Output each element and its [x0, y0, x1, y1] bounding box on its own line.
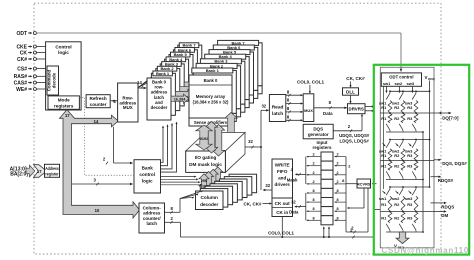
- svg-text:16,384: 16,384: [174, 97, 187, 101]
- wire ODT-RDQS pad node: [380, 211, 434, 213]
- resistor ODT-DQ R3 (upper): [407, 101, 418, 114]
- resistor ODT-DQ R3 (lower): [407, 114, 418, 123]
- switch ODT-DQ sw2 (upper): [392, 90, 404, 105]
- switch ODT-DQ sw1 (upper): [379, 90, 391, 105]
- input pin CS#: [17, 66, 36, 72]
- ODT control block: [381, 73, 421, 86]
- svg-text:Bank: Bank: [142, 166, 154, 171]
- VDDQ rail: [425, 75, 436, 187]
- svg-text:2: 2: [312, 180, 314, 184]
- svg-text:DM mask logic: DM mask logic: [189, 162, 222, 167]
- svg-text:8: 8: [337, 207, 339, 211]
- svg-text:2: 2: [337, 162, 339, 166]
- CK out / CK in block: [272, 198, 293, 217]
- row latch stack (banks 7-1): [151, 43, 201, 116]
- resistor ODT-RDQS R3 (lower): [407, 212, 418, 223]
- svg-text:sw3: sw3: [405, 196, 413, 201]
- svg-text:R2: R2: [394, 153, 400, 158]
- svg-text:Column: Column: [200, 195, 218, 200]
- svg-text:2: 2: [337, 180, 339, 184]
- svg-text:Mode: Mode: [58, 98, 70, 103]
- resistor ODT-RDQS R2 (lower): [394, 212, 405, 223]
- wire 2 strobe to RCVRS: [346, 188, 368, 233]
- pin DM: [434, 210, 449, 218]
- svg-text:MUX: MUX: [304, 108, 313, 113]
- wire ODT-RDQS VSSQ rail: [386, 231, 423, 233]
- wires ODT control to switches: [385, 86, 413, 93]
- svg-text:Bank 0: Bank 0: [204, 78, 218, 83]
- VSSQ arrow: [394, 232, 409, 249]
- switch ODT-DQS sw3 (lower): [412, 171, 416, 179]
- wire RAS# to control logic: [36, 75, 45, 77]
- switch ODT-RDQS sw1 (upper): [379, 186, 391, 201]
- resistor ODT-DQ R2 (upper): [394, 101, 405, 114]
- wire CAS# to control logic: [36, 82, 45, 84]
- svg-text:32: 32: [248, 139, 253, 144]
- svg-text:8: 8: [337, 198, 339, 202]
- wire Data MUX to DRVRS: [314, 100, 348, 116]
- svg-text:R3: R3: [407, 164, 413, 169]
- svg-text:8: 8: [312, 207, 314, 211]
- svg-text:counter/: counter/: [143, 216, 162, 221]
- wire ODT-DQS pad node: [380, 160, 434, 162]
- wires 8 read latch to MUX: [286, 89, 303, 121]
- wire 8 column counter to column decoder: [165, 190, 204, 214]
- svg-text:DQ[7:0]: DQ[7:0]: [442, 116, 459, 121]
- svg-text:COL0, COL1: COL0, COL1: [297, 79, 325, 84]
- svg-text:2: 2: [312, 171, 314, 175]
- resistor ODT-DQ R1 (upper): [381, 101, 392, 114]
- resistor ODT-DQS R2 (upper): [394, 149, 405, 162]
- command decode block: [47, 66, 59, 95]
- svg-text:8192: 8192: [200, 137, 208, 141]
- control logic block: [46, 42, 82, 110]
- sense amplifiers block: [189, 118, 232, 126]
- column decoder block: [196, 191, 224, 210]
- resistor ODT-DQS R3 (upper): [407, 149, 418, 162]
- switch ODT-DQ sw3 (lower): [412, 124, 416, 132]
- wire ODT-DQ VSSQ rail: [386, 131, 423, 133]
- svg-text:CK: CK: [20, 50, 28, 56]
- pin DQ[7:0]: [434, 112, 459, 121]
- column decoder stack (banks 7-1): [200, 174, 256, 207]
- svg-text:logic: logic: [142, 179, 153, 184]
- svg-text:17: 17: [65, 113, 70, 118]
- wire 2 DQS generator to DRVRS: [333, 114, 363, 133]
- wire ODT-RDQS VDDQ rail: [390, 186, 430, 188]
- switch ODT-RDQS sw3 (lower): [412, 224, 416, 232]
- wire ODT-DQ pad node: [380, 112, 434, 114]
- wire ODT-DQS VDDQ rail: [390, 139, 430, 141]
- svg-text:sw2: sw2: [392, 196, 400, 201]
- svg-text:2: 2: [312, 162, 314, 166]
- switch ODT-RDQS sw3 (upper): [405, 186, 417, 201]
- svg-text:R1: R1: [381, 202, 387, 207]
- svg-text:Address: Address: [45, 166, 59, 171]
- resistor ODT-DQS R3 (lower): [407, 161, 418, 170]
- svg-text:sw3: sw3: [407, 81, 415, 86]
- input pin WE#: [16, 87, 36, 93]
- svg-text:CK#: CK#: [17, 57, 27, 63]
- svg-text:Read: Read: [272, 104, 284, 110]
- svg-text:R2: R2: [394, 105, 400, 110]
- svg-text:control: control: [139, 172, 155, 177]
- svg-text:latch: latch: [146, 221, 157, 226]
- svg-text:32: 32: [261, 104, 266, 109]
- switch ODT-DQ sw3 (upper): [405, 90, 417, 105]
- svg-text:Refresh: Refresh: [90, 96, 107, 101]
- svg-text:DRVRS: DRVRS: [349, 107, 364, 112]
- svg-text:DM: DM: [441, 213, 448, 218]
- DLL block: [343, 88, 359, 95]
- labels UDQS LDQS: [339, 133, 370, 144]
- wires Data 32 to write FIFO: [289, 189, 321, 221]
- resistor ODT-DQS R1 (lower): [381, 161, 392, 170]
- svg-text:8: 8: [337, 189, 339, 193]
- 256 (x32) bus arrow to column decoder: [199, 174, 209, 191]
- wire WE# to control logic: [36, 88, 45, 90]
- svg-text:logic: logic: [58, 50, 69, 55]
- svg-text:sw2: sw2: [395, 81, 403, 86]
- svg-text:(16,384 x 256 x 32): (16,384 x 256 x 32): [193, 100, 229, 105]
- bank 0 memory array block: [189, 75, 232, 118]
- svg-text:2: 2: [337, 153, 339, 157]
- wire ODT to ODT control: [36, 33, 402, 72]
- resistor ODT-DQS R1 (upper): [381, 149, 392, 162]
- address bus (gray, 17/14/10): [60, 110, 140, 218]
- label CK, CK# into DLL: [346, 76, 365, 88]
- switch ODT-DQ sw1 (lower): [386, 124, 390, 132]
- wire 2 COL0 COL1 from counter: [165, 216, 181, 237]
- svg-text:32: 32: [265, 183, 270, 188]
- svg-text:BA[2:0]: BA[2:0]: [10, 172, 28, 178]
- svg-text:Bank 1: Bank 1: [156, 71, 170, 76]
- svg-text:8: 8: [312, 216, 314, 220]
- svg-text:Memory array: Memory array: [196, 94, 226, 99]
- svg-text:DQS, DQS#: DQS, DQS#: [442, 161, 467, 166]
- svg-text:sw1: sw1: [383, 81, 391, 86]
- svg-text:MUX: MUX: [123, 105, 133, 110]
- svg-text:drivers: drivers: [275, 182, 291, 187]
- svg-text:WRITE: WRITE: [275, 163, 290, 168]
- resistor ODT-RDQS R3 (upper): [407, 196, 418, 212]
- 16,384 bus arrows (back banks): [175, 75, 206, 98]
- column-address counter/latch block: [139, 203, 165, 233]
- svg-text:RDQS#: RDQS#: [438, 178, 454, 183]
- I/O gating DM mask logic block: [186, 133, 245, 173]
- wires bank control to column decoders: [161, 176, 203, 186]
- svg-text:LDQS, LDQS#: LDQS, LDQS#: [340, 139, 370, 144]
- svg-text:14: 14: [137, 80, 142, 85]
- bank 0 row-address latch and decoder block: [147, 78, 171, 120]
- resistor ODT-RDQS R2 (upper): [394, 196, 405, 212]
- wire DQ pad to RCVRS: [342, 178, 376, 185]
- wire CK# to control logic: [36, 58, 45, 60]
- svg-text:R1: R1: [381, 153, 387, 158]
- svg-text:8: 8: [337, 216, 339, 220]
- svg-text:FIFO: FIFO: [277, 169, 288, 174]
- svg-text:R2: R2: [394, 215, 400, 220]
- switch ODT-DQS sw1 (lower): [386, 171, 390, 179]
- svg-text:Bank 1: Bank 1: [206, 68, 220, 73]
- 8192 bus arrow to I/O gating: [196, 125, 212, 150]
- svg-text:R3: R3: [407, 202, 413, 207]
- svg-text:DQS: DQS: [313, 126, 323, 131]
- ODT control trunk: [383, 86, 385, 189]
- svg-text:Data: Data: [289, 209, 299, 214]
- svg-text:UDQS, UDQS#: UDQS, UDQS#: [339, 133, 370, 138]
- wire COL0,COL1 bottom bus: [180, 210, 380, 239]
- svg-text:Data: Data: [323, 111, 333, 116]
- svg-text:17: 17: [37, 169, 42, 174]
- ODT block outline: [380, 67, 434, 248]
- svg-text:address: address: [143, 211, 161, 216]
- input pin CK: [20, 50, 37, 56]
- input pin RAS#: [14, 74, 37, 80]
- svg-text:256: 256: [201, 179, 207, 183]
- input pin CK#: [17, 57, 36, 63]
- svg-text:RCVRS: RCVRS: [357, 181, 371, 186]
- svg-text:counter: counter: [90, 102, 107, 107]
- bank control logic block: [134, 160, 161, 193]
- svg-text:latch: latch: [272, 111, 283, 117]
- svg-text:ODT control: ODT control: [389, 75, 413, 80]
- svg-text:RDQS: RDQS: [441, 205, 454, 210]
- address input A[13:0] BA[2:0]: [10, 165, 47, 178]
- wire CKE to control logic: [36, 46, 45, 48]
- wire DLL to DRVRS: [349, 95, 351, 104]
- svg-text:V: V: [425, 75, 428, 80]
- pin RDQS#: [431, 176, 454, 184]
- svg-text:sw1: sw1: [379, 196, 387, 201]
- switch ODT-DQS sw2 (lower): [399, 171, 403, 179]
- wire 3 to bank control: [72, 178, 134, 186]
- resistor ODT-RDQS R1 (upper): [381, 196, 392, 212]
- wire 32 I/O gating to read latch: [245, 104, 269, 190]
- wire ODT-DQS VSSQ rail: [386, 179, 423, 181]
- svg-text:8: 8: [312, 198, 314, 202]
- svg-text:CK in: CK in: [276, 210, 288, 215]
- wires RCVRS to input registers: [334, 153, 351, 232]
- svg-text:COL0, COL1: COL0, COL1: [268, 230, 294, 235]
- DQS generator block: [303, 124, 333, 139]
- svg-text:R1: R1: [381, 215, 387, 220]
- svg-text:14: 14: [94, 119, 99, 124]
- wire RCVRS to register merge: [347, 188, 364, 209]
- RCVRS block: [357, 179, 371, 188]
- svg-text:Mask: Mask: [287, 177, 298, 182]
- svg-text:and: and: [278, 176, 286, 181]
- svg-text:R1: R1: [381, 116, 387, 121]
- wire CK to control logic: [36, 52, 45, 54]
- svg-text:CK, CK#: CK, CK#: [346, 76, 365, 81]
- refresh counter block: [86, 95, 110, 108]
- 8192 bus arrow (bank 7, behind): [225, 113, 237, 141]
- WRITE FIFO block: [272, 159, 293, 198]
- resistor ODT-DQ R1 (lower): [381, 114, 392, 123]
- address register block: [45, 164, 60, 177]
- switch ODT-RDQS sw2 (lower): [399, 224, 403, 232]
- wire refresh counter to row-address MUX: [110, 99, 117, 104]
- switch ODT-DQ sw2 (lower): [399, 124, 403, 132]
- resistor ODT-RDQS R1 (lower): [381, 212, 392, 223]
- 16,384 bus arrow to memory array: [171, 94, 189, 103]
- svg-text:R2: R2: [394, 164, 400, 169]
- dotted wire mode registers to bank control: [79, 98, 134, 176]
- switch ODT-DQS sw3 (upper): [405, 139, 417, 154]
- svg-text:R1: R1: [381, 105, 387, 110]
- 8192 bus arrows (back banks): [205, 122, 224, 157]
- pin DQS, DQS#: [434, 159, 467, 166]
- input registers block: [312, 140, 333, 225]
- ODT section highlight (green box): [374, 65, 469, 255]
- label CK, CK# into CK in: [243, 201, 272, 206]
- wires bank control to row latches: [161, 122, 178, 173]
- wire 32 write FIFO to I/O gating: [263, 183, 273, 191]
- input pin CKE: [16, 44, 36, 50]
- svg-text:decode: decode: [52, 72, 57, 88]
- svg-text:R3: R3: [407, 116, 413, 121]
- svg-text:registers: registers: [312, 145, 332, 150]
- svg-text:CAS#: CAS#: [14, 80, 28, 86]
- switch ODT-RDQS sw2 (upper): [392, 186, 404, 201]
- svg-text:CKE: CKE: [16, 44, 27, 50]
- wire ODT-DQ VDDQ rail: [390, 90, 430, 92]
- svg-text:32: 32: [291, 199, 296, 204]
- svg-text:registers: registers: [54, 103, 74, 108]
- svg-text:CSDN@highman110: CSDN@highman110: [382, 246, 470, 255]
- svg-text:DLL: DLL: [346, 90, 355, 95]
- svg-text:decoder: decoder: [151, 105, 168, 110]
- svg-text:RAS#: RAS#: [14, 74, 28, 80]
- mode registers block: [48, 96, 79, 109]
- input pin ODT: [16, 31, 36, 37]
- svg-text:R3: R3: [407, 105, 413, 110]
- switch ODT-DQS sw1 (upper): [379, 139, 391, 154]
- MUX block: [303, 94, 314, 122]
- svg-text:R2: R2: [394, 202, 400, 207]
- wire CK to bottom bus: [281, 217, 283, 239]
- row-address MUX block: [118, 83, 138, 122]
- read latch block: [269, 95, 285, 122]
- svg-text:2: 2: [337, 171, 339, 175]
- svg-text:Column-: Column-: [143, 205, 162, 210]
- svg-text:8: 8: [312, 189, 314, 193]
- svg-text:10: 10: [95, 208, 100, 213]
- wires DRVRS to DQ pads: [365, 105, 374, 112]
- input pin CAS#: [14, 80, 37, 86]
- wires strobe to input registers: [323, 226, 330, 238]
- svg-text:R2: R2: [394, 116, 400, 121]
- wire 2 to bank control: [103, 127, 133, 165]
- 256 bus arrows (back banks): [204, 167, 223, 188]
- svg-text:CK, CK#: CK, CK#: [243, 201, 261, 206]
- svg-text:CK out: CK out: [275, 201, 291, 206]
- wire CS# to control logic: [36, 68, 45, 70]
- switch ODT-DQS sw2 (upper): [392, 139, 404, 154]
- switch ODT-RDQS sw1 (lower): [386, 224, 390, 232]
- DRVRS block: [348, 104, 366, 114]
- svg-text:2: 2: [312, 153, 314, 157]
- svg-text:R3: R3: [407, 215, 413, 220]
- resistor ODT-DQS R2 (lower): [394, 161, 405, 170]
- svg-text:generator: generator: [308, 132, 329, 137]
- resistor ODT-DQ R2 (lower): [394, 114, 405, 123]
- VSSQ rail: [422, 132, 424, 232]
- memory array stack (banks 7-1): [192, 40, 262, 121]
- wire 14 MUX to row latches: [137, 67, 164, 90]
- svg-text:WE#: WE#: [16, 87, 27, 93]
- svg-text:I/O gating: I/O gating: [195, 155, 217, 160]
- svg-text:R1: R1: [381, 164, 387, 169]
- pin RDQS: [431, 202, 455, 210]
- label COL0,COL1 into MUX: [297, 79, 325, 94]
- wires Mask 4 to write FIFO: [287, 153, 321, 185]
- svg-text:CS#: CS#: [17, 66, 27, 72]
- svg-text:register: register: [45, 171, 59, 176]
- svg-text:R3: R3: [407, 153, 413, 158]
- svg-text:decoder: decoder: [200, 202, 218, 207]
- svg-text:ODT: ODT: [16, 31, 27, 37]
